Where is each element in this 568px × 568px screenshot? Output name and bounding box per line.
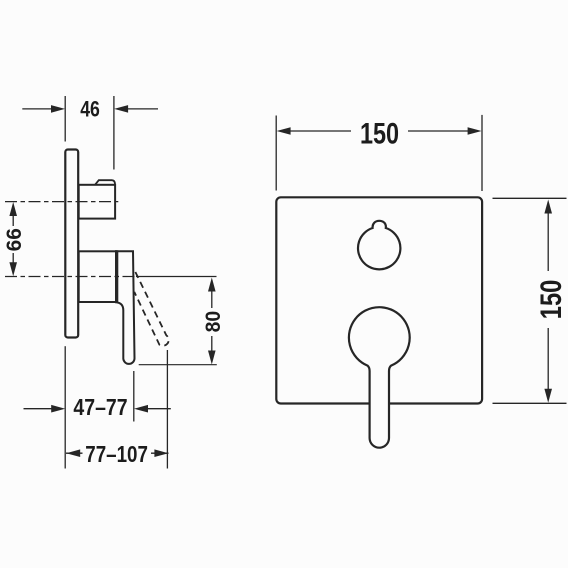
upper centerline (5, 201, 118, 203)
svg-text:66: 66 (2, 228, 26, 251)
lever (dashed alternate position) (134, 272, 168, 346)
diverter knob body (side view) (79, 185, 115, 219)
svg-text:46: 46 (80, 97, 100, 122)
dimension 46 (22, 96, 158, 170)
dimension 150 right (493, 198, 568, 403)
lower centerline (5, 276, 136, 278)
dimension 47-77 (24, 394, 171, 420)
svg-text:150: 150 (360, 117, 399, 150)
escutcheon edge thick bar (side view) (115, 250, 118, 303)
svg-text:47–77: 47–77 (73, 394, 127, 420)
extension line 80 bottom (139, 364, 217, 366)
extension line below plate (64, 346, 66, 468)
dimension 66 (2, 202, 26, 276)
diverter knob cap (side view) (95, 180, 115, 184)
mixer body (side view) (79, 251, 116, 302)
svg-text:77–107: 77–107 (85, 441, 148, 467)
svg-text:150: 150 (535, 280, 568, 320)
diverter knob (front view) (358, 221, 400, 270)
escutcheon plate (front view) (276, 197, 482, 403)
handle with lever (front view) (349, 307, 410, 448)
lever (side view, solid position) (116, 251, 135, 364)
svg-text:80: 80 (200, 311, 225, 333)
extension line 80 top (136, 276, 217, 278)
dimension 150 top (276, 115, 482, 191)
wall plate (side view) (65, 150, 78, 338)
extension line below dashed lever tip (166, 350, 168, 469)
dimension 77-107 (66, 441, 169, 467)
dimension 80 (200, 278, 225, 365)
extension line below lever tip (133, 371, 135, 422)
